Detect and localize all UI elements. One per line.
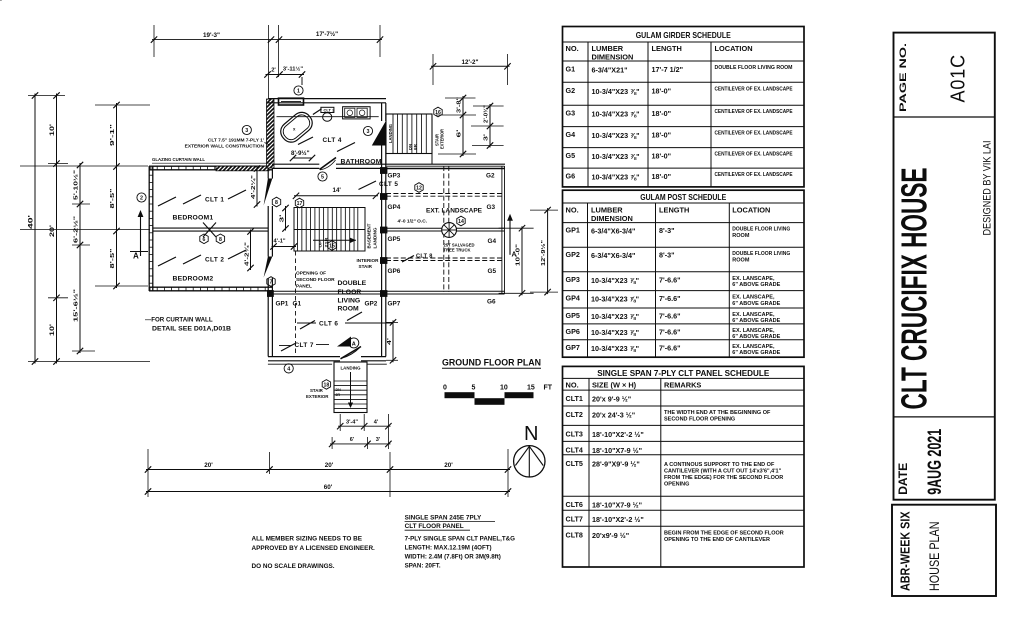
plan: bathtub — [277, 108, 316, 146]
svg-text:7-PLY SINGLE SPAN CLT PANEL,T&: 7-PLY SINGLE SPAN CLT PANEL,T&G — [405, 536, 516, 543]
svg-text:G3: G3 — [487, 204, 496, 211]
plan: CLT 7 span label — [279, 342, 329, 351]
svg-text:6-3/4"X6-3/4": 6-3/4"X6-3/4" — [591, 227, 635, 236]
svg-text:10-3/4"X23 ⅞": 10-3/4"X23 ⅞" — [592, 87, 640, 96]
svg-text:STAIR: STAIR — [359, 264, 373, 269]
svg-text:GP2: GP2 — [566, 250, 580, 259]
plan: landscape center dashed posts line — [444, 166, 449, 292]
plan: label CLT 3 at toilet — [313, 108, 335, 115]
plan: circled marker 1 — [294, 77, 303, 95]
svg-text:19'-3": 19'-3" — [203, 32, 220, 39]
svg-text:CENTILEVER OF EX. LANDSCAPE: CENTILEVER OF EX. LANDSCAPE — [715, 86, 793, 92]
dim extension lines (west) — [20, 96, 150, 362]
svg-text:EX. LANSCAPE,: EX. LANSCAPE, — [732, 312, 775, 318]
svg-text:DESIGNED BY VIK LAI: DESIGNED BY VIK LAI — [982, 141, 994, 236]
svg-text:BEGIN FROM THE EDGE OF SECOND: BEGIN FROM THE EDGE OF SECOND FLOOR — [664, 530, 784, 536]
svg-text:LANDING: LANDING — [373, 227, 378, 249]
svg-text:EXTERIOR WALL CONSTRUCTION: EXTERIOR WALL CONSTRUCTION — [185, 144, 265, 150]
svg-text:CLT2: CLT2 — [566, 410, 583, 419]
plan: girder G2 dashed line — [386, 194, 505, 197]
svg-text:G2: G2 — [486, 173, 495, 180]
dim chain: 12-9.5 (east) — [530, 207, 558, 295]
svg-text:18'-10"X7-9 ½": 18'-10"X7-9 ½" — [592, 501, 642, 510]
svg-text:10-3/4"X23 ⅞": 10-3/4"X23 ⅞" — [592, 173, 640, 182]
svg-text:4'-2¼": 4'-2¼" — [250, 174, 257, 199]
svg-text:CLT4: CLT4 — [566, 445, 583, 454]
plan: stair exterior (south) — [334, 362, 367, 413]
svg-text:18: 18 — [324, 382, 330, 388]
svg-text:1: 1 — [297, 89, 300, 95]
svg-text:N: N — [524, 423, 538, 445]
svg-text:G4: G4 — [566, 130, 576, 139]
svg-text:LIVING: LIVING — [338, 298, 361, 305]
svg-text:NO.: NO. — [566, 44, 579, 53]
svg-text:LENGTH: LENGTH — [659, 206, 689, 215]
svg-text:FT: FT — [544, 385, 553, 392]
svg-text:FLOOR: FLOOR — [338, 289, 362, 296]
plan: hex marker 12 — [415, 183, 423, 193]
svg-text:8'-5": 8'-5" — [110, 188, 116, 209]
svg-text:OPENING TO THE END OF CANTILEV: OPENING TO THE END OF CANTILEVER — [664, 537, 770, 543]
svg-text:20': 20' — [444, 462, 453, 469]
svg-text:10': 10' — [49, 323, 56, 336]
svg-text:PANEL: PANEL — [296, 284, 312, 290]
svg-text:THE WIDTH END AT THE BEGINNING: THE WIDTH END AT THE BEGINNING OF — [664, 410, 771, 416]
svg-text:NO.: NO. — [566, 380, 579, 389]
svg-text:LANDING: LANDING — [341, 366, 361, 371]
svg-text:18'-0": 18'-0" — [652, 172, 672, 181]
plan: circled marker 5 (bath door south) — [318, 172, 327, 181]
svg-text:3': 3' — [484, 134, 490, 141]
svg-text:CLT 1: CLT 1 — [205, 197, 224, 204]
plan: stair exterior labels (north) — [435, 128, 445, 149]
plan: interior stair treads — [294, 208, 365, 252]
svg-text:GROUND FLOOR PLAN: GROUND FLOOR PLAN — [442, 358, 541, 369]
dim chain: 3-8 / 6 (stair east) — [436, 95, 476, 157]
plan: wall break X symbol on divider — [203, 223, 216, 238]
svg-text:20'x 24'-3 ½": 20'x 24'-3 ½" — [592, 411, 635, 420]
svg-text:DOUBLE FLOOR LIVING: DOUBLE FLOOR LIVING — [732, 251, 790, 257]
svg-text:BEDROOM2: BEDROOM2 — [173, 276, 214, 283]
svg-text:G2: G2 — [566, 86, 576, 95]
svg-text:LOCATION: LOCATION — [715, 44, 753, 53]
plan: bathroom door symbol 5 (south wall opening) — [320, 158, 337, 170]
svg-text:APPROVED BY A LICENSED ENGINEE: APPROVED BY A LICENSED ENGINEER. — [252, 545, 376, 552]
svg-text:8'-3": 8'-3" — [659, 226, 675, 235]
svg-text:6" ABOVE GRADE: 6" ABOVE GRADE — [732, 282, 780, 288]
plan: dim 8-9.5 in bathroom — [290, 150, 315, 161]
svg-text:BATHROOM: BATHROOM — [341, 159, 382, 166]
girder G1 line across living room — [273, 291, 384, 294]
plan: dim 4'-1" — [270, 239, 297, 250]
svg-text:A: A — [352, 341, 356, 347]
svg-text:SINGLE SPAN 7-PLY CLT PANEL SC: SINGLE SPAN 7-PLY CLT PANEL SCHEDULE — [597, 368, 769, 378]
svg-text:SECOND FLOOR: SECOND FLOOR — [296, 277, 335, 283]
svg-text:CLT 5: CLT 5 — [379, 181, 398, 188]
svg-text:CLT 6: CLT 6 — [319, 320, 338, 327]
svg-text:EXT. LANDSCAPE: EXT. LANDSCAPE — [426, 208, 482, 215]
svg-text:4'-0 1/2" O.C.: 4'-0 1/2" O.C. — [398, 219, 428, 225]
plan: stair up arrow and UP 21R — [313, 237, 356, 248]
dim witness lines (stair south) — [332, 414, 388, 449]
title block: DATE cell — [894, 417, 995, 495]
svg-text:8R: 8R — [336, 393, 341, 397]
plan: dim 3ft at stair left — [280, 205, 289, 232]
dim chain: 2ft / 3-11.5 — [264, 66, 305, 86]
title block: page number A01C — [947, 54, 970, 103]
svg-text:8: 8 — [275, 200, 278, 206]
svg-text:7'-6.6": 7'-6.6" — [659, 343, 681, 352]
svg-text:GP7: GP7 — [566, 343, 580, 352]
svg-text:A: A — [133, 252, 139, 261]
plan: bedroom divider interior wall — [153, 228, 268, 231]
svg-text:3'-8": 3'-8" — [457, 96, 463, 113]
plan: south door arc at living room exit — [341, 347, 362, 359]
svg-text:WIDTH: 2.4M (7.8Ft) OR 3M(9.8f: WIDTH: 2.4M (7.8Ft) OR 3M(9.8ft) — [405, 554, 501, 561]
dim chain: bottom 60 — [145, 484, 511, 495]
plan: room label BEDROOM2 — [173, 276, 214, 283]
plan: CLT 5 span label — [359, 181, 399, 190]
svg-text:6: 6 — [203, 237, 206, 243]
svg-text:10-3/4"X23 ⅞": 10-3/4"X23 ⅞" — [591, 312, 639, 321]
plan: bathroom hatched west wall — [267, 99, 275, 168]
svg-text:6-3/4"X21": 6-3/4"X21" — [592, 66, 628, 75]
svg-text:CLT 7: CLT 7 — [295, 342, 314, 349]
svg-text:14: 14 — [458, 219, 464, 225]
plan: girder G5 dashed line (CLT 8) — [386, 258, 505, 261]
svg-text:CENTILEVER OF EX. LANDSCAPE: CENTILEVER OF EX. LANDSCAPE — [715, 152, 793, 158]
plan: room label BATHROOM — [341, 159, 382, 166]
svg-text:CLT 8: CLT 8 — [416, 253, 433, 259]
dim chain: bottom 20/20/20 — [145, 462, 511, 473]
dim chain: stair south 3-4 / 4 — [337, 420, 392, 430]
svg-text:G4: G4 — [488, 238, 497, 245]
svg-text:10-3/4"X23 ⅞": 10-3/4"X23 ⅞" — [591, 344, 639, 353]
svg-text:20': 20' — [49, 224, 56, 237]
svg-text:DN: DN — [336, 388, 342, 392]
svg-text:DIMENSION: DIMENSION — [592, 52, 634, 61]
svg-text:6': 6' — [457, 130, 463, 138]
svg-text:TREE TRUCK: TREE TRUCK — [444, 248, 471, 253]
svg-text:DO NO SCALE DRAWINGS.: DO NO SCALE DRAWINGS. — [252, 563, 335, 570]
svg-text:BEDROOM1: BEDROOM1 — [173, 215, 214, 222]
svg-text:ROOM: ROOM — [338, 306, 359, 313]
plan: note glazing curtain wall — [152, 157, 270, 163]
svg-text:10-3/4"X23 ⅞": 10-3/4"X23 ⅞" — [592, 152, 640, 161]
plan: center column west wall — [268, 166, 272, 357]
svg-text:GP1: GP1 — [566, 226, 580, 235]
svg-text:14': 14' — [333, 187, 342, 194]
svg-text:10-3/4"X23 ⅞": 10-3/4"X23 ⅞" — [591, 295, 639, 304]
svg-text:EX. LANSCAPE,: EX. LANSCAPE, — [732, 328, 775, 334]
plan: hex markers 6 and 8 at divider — [200, 234, 225, 244]
svg-text:LENGTH: MAX.12.19M (4OFT): LENGTH: MAX.12.19M (4OFT) — [405, 545, 492, 552]
svg-text:8R: 8R — [414, 143, 418, 150]
svg-text:GULAM POST SCHEDULE: GULAM POST SCHEDULE — [640, 192, 726, 202]
svg-text:20'x 9'-9 ½": 20'x 9'-9 ½" — [592, 395, 631, 404]
svg-text:REMARKS: REMARKS — [664, 380, 701, 389]
plan: room label EXT. LANDSCAPE — [426, 208, 482, 215]
svg-text:G3: G3 — [566, 109, 576, 118]
dim chain: stair south 6 / 3 — [329, 437, 392, 447]
svg-text:CLT 7.5" 191MM 7-PLY 1': CLT 7.5" 191MM 7-PLY 1' — [208, 138, 264, 144]
svg-text:60': 60' — [324, 484, 333, 491]
svg-text:10': 10' — [49, 123, 56, 136]
svg-text:GULAM GIRDER SCHEDULE: GULAM GIRDER SCHEDULE — [636, 30, 731, 40]
plan: girder/post tags row (G/GP) — [276, 173, 497, 308]
svg-text:7'-6.6": 7'-6.6" — [659, 294, 681, 303]
svg-text:6" ABOVE GRADE: 6" ABOVE GRADE — [732, 350, 780, 356]
dim chain: 5-10.5/6-2.5/15-6.5 (west) — [73, 162, 84, 354]
dim chain: 4ft (south-east of block) — [386, 319, 398, 363]
svg-text:12'-9½": 12'-9½" — [540, 240, 547, 266]
svg-text:LENGTH: LENGTH — [652, 44, 682, 53]
svg-text:2'-0¾": 2'-0¾" — [483, 104, 490, 123]
svg-text:GP6: GP6 — [388, 268, 401, 275]
svg-text:18'-10"X7-9 ½": 18'-10"X7-9 ½" — [592, 446, 642, 455]
plan: dim 4-2.25 lower — [244, 228, 254, 271]
svg-text:6': 6' — [350, 437, 355, 443]
svg-text:DOUBLE: DOUBLE — [338, 280, 367, 287]
plan: section arrow A (west) — [130, 210, 148, 261]
svg-text:0: 0 — [443, 385, 447, 392]
svg-text:CLT1: CLT1 — [566, 394, 583, 403]
svg-text:EXTERIOR: EXTERIOR — [306, 394, 329, 399]
svg-text:UP: UP — [319, 240, 323, 248]
plan: salvaged tree truck symbol — [442, 223, 457, 238]
svg-text:GP2: GP2 — [365, 301, 378, 308]
svg-text:20'x9'-9 ½": 20'x9'-9 ½" — [592, 531, 629, 540]
plan: circled marker 2 — [137, 193, 146, 202]
svg-text:7'-6.6": 7'-6.6" — [659, 275, 681, 284]
svg-text:15'-6½": 15'-6½" — [73, 288, 80, 322]
plan: hex marker 16 — [434, 107, 442, 117]
svg-text:SINGLE SPAN 245E 7PLY: SINGLE SPAN 245E 7PLY — [405, 515, 482, 522]
svg-text:5: 5 — [321, 175, 324, 181]
svg-text:10-3/4"X23 ⅞": 10-3/4"X23 ⅞" — [591, 276, 639, 285]
svg-text:18'-10"X2'-2 ½": 18'-10"X2'-2 ½" — [592, 515, 644, 524]
plan: dim 14 ft — [293, 187, 379, 199]
svg-text:5'-10½": 5'-10½" — [73, 169, 80, 200]
dim chain: 10/20/10 (west) — [49, 92, 60, 364]
svg-text:GLAZING CURTAIN WALL: GLAZING CURTAIN WALL — [152, 157, 205, 163]
svg-text:DN: DN — [409, 144, 413, 150]
svg-text:6'-2½": 6'-2½" — [73, 215, 80, 243]
svg-text:3'-11½": 3'-11½" — [283, 66, 303, 73]
svg-text:3'-4": 3'-4" — [346, 420, 358, 426]
plan: stair exterior labels (south) — [306, 380, 331, 399]
svg-text:8'-5": 8'-5" — [110, 248, 116, 269]
plan: CLT 6 span label — [297, 312, 393, 329]
dim chain: 10-0 (east) — [499, 225, 534, 297]
svg-text:EX. LANSCAPE,: EX. LANSCAPE, — [732, 295, 775, 301]
plan: room label DOUBLE FLOOR LIVING ROOM — [338, 280, 367, 313]
svg-text:4'-1": 4'-1" — [274, 239, 286, 245]
note: all member sizing — [252, 536, 376, 571]
plan: hex marker 7 (bedroom2 door) — [267, 277, 275, 287]
svg-text:—FOR CURTAIN WALL: —FOR CURTAIN WALL — [145, 317, 213, 324]
dim chain: overall 40 ft (west) — [28, 92, 39, 364]
svg-text:SECOND FLOOR OPENING: SECOND FLOOR OPENING — [664, 417, 735, 423]
svg-text:10'-0": 10'-0" — [516, 244, 522, 266]
svg-text:20': 20' — [325, 462, 334, 469]
svg-text:CLT3: CLT3 — [566, 429, 583, 438]
svg-text:GP1: GP1 — [276, 301, 289, 308]
plan: section arrow A (east) — [507, 214, 516, 259]
svg-text:10-3/4"X23 ⅞": 10-3/4"X23 ⅞" — [591, 328, 639, 337]
svg-text:6" ABOVE GRADE: 6" ABOVE GRADE — [732, 334, 780, 340]
svg-text:PAGE NO.: PAGE NO. — [898, 43, 908, 112]
svg-text:CLT CRUCIFIX HOUSE: CLT CRUCIFIX HOUSE — [894, 168, 935, 410]
svg-text:GP4: GP4 — [388, 204, 401, 211]
svg-text:CENTILEVER OF EX. LANDSCAPE: CENTILEVER OF EX. LANDSCAPE — [715, 172, 793, 178]
svg-text:4': 4' — [387, 338, 393, 345]
plan: bathroom/main shared wall (south of bathroom) — [272, 164, 505, 168]
plan: girder G4 line through tree truck — [386, 228, 505, 231]
plan: hex marker 17 — [295, 198, 303, 208]
svg-text:6-3/4"X6-3/4": 6-3/4"X6-3/4" — [591, 251, 635, 260]
svg-text:OPENING: OPENING — [664, 482, 689, 488]
svg-text:GP7: GP7 — [388, 301, 401, 308]
title block: designer credit — [982, 141, 994, 236]
svg-text:CLT7: CLT7 — [566, 514, 583, 523]
title block: PAGE NO. cell — [894, 43, 995, 117]
svg-text:4': 4' — [374, 420, 379, 426]
svg-text:17: 17 — [297, 201, 303, 207]
plan: basement landing label — [358, 208, 378, 251]
svg-text:10-3/4"X23 ⅞": 10-3/4"X23 ⅞" — [592, 110, 640, 119]
svg-text:CLT8: CLT8 — [566, 530, 583, 539]
svg-text:9'-1": 9'-1" — [110, 123, 116, 146]
heading: GROUND FLOOR PLAN — [442, 358, 541, 369]
plan: CLT 2 span label — [158, 250, 246, 266]
svg-text:6" ABOVE GRADE: 6" ABOVE GRADE — [732, 318, 780, 324]
plan: center column east wall with GP posts — [267, 103, 387, 357]
svg-text:G1: G1 — [566, 65, 576, 74]
table: GULAM POST SCHEDULE — [563, 190, 805, 357]
title block: sheet frame — [894, 33, 995, 500]
note: single span panel spec — [405, 515, 516, 570]
svg-text:3: 3 — [367, 129, 370, 135]
svg-text:9AUG 2021: 9AUG 2021 — [925, 429, 946, 495]
svg-text:CLT5: CLT5 — [566, 459, 583, 468]
svg-text:x: x — [293, 127, 296, 132]
svg-text:DIMENSION: DIMENSION — [591, 214, 633, 223]
svg-text:2': 2' — [271, 68, 276, 74]
svg-text:18'-0": 18'-0" — [652, 109, 672, 118]
svg-text:8'-9½": 8'-9½" — [291, 150, 310, 157]
svg-text:6" ABOVE GRADE: 6" ABOVE GRADE — [732, 301, 780, 307]
svg-text:GP4: GP4 — [566, 294, 580, 303]
svg-text:18'-0": 18'-0" — [652, 131, 672, 140]
svg-text:CENTILEVER OF EX. LANDSCAPE: CENTILEVER OF EX. LANDSCAPE — [715, 109, 793, 115]
plan: note 4-0.5 O.C. — [398, 219, 428, 225]
svg-text:ALL MEMBER SIZING NEEDS TO BE: ALL MEMBER SIZING NEEDS TO BE — [252, 536, 363, 543]
svg-text:3: 3 — [245, 128, 248, 134]
svg-text:4: 4 — [287, 366, 290, 372]
svg-text:10: 10 — [500, 385, 508, 392]
svg-text:G1: G1 — [293, 301, 302, 308]
svg-text:CLT6: CLT6 — [566, 500, 583, 509]
svg-text:EXTERIOR: EXTERIOR — [440, 128, 445, 149]
svg-text:OPENING OF: OPENING OF — [296, 271, 326, 277]
plan: circled marker 3 (wall note) — [242, 125, 251, 134]
svg-text:CENTILEVER OF EX. LANDSCAPE: CENTILEVER OF EX. LANDSCAPE — [715, 131, 793, 137]
plan: circled marker 3 (bath door) — [363, 126, 372, 135]
dim chain: 2-0.75 / 3 (stair east outer) — [471, 103, 504, 149]
svg-text:INTERIOR: INTERIOR — [357, 258, 380, 263]
plan: hatched top wall segment (exterior wall construction) — [216, 166, 269, 171]
svg-text:ROOM: ROOM — [732, 257, 750, 263]
plan: section marker A (south) — [337, 337, 359, 348]
svg-text:SIZE (W × H): SIZE (W × H) — [592, 380, 637, 389]
plan: note CLT exterior wall construction — [185, 138, 270, 150]
plan: bathroom north wall with window — [268, 98, 386, 105]
north arrow — [514, 423, 545, 477]
svg-text:LOCATION: LOCATION — [732, 206, 770, 215]
svg-text:CLT 2: CLT 2 — [205, 257, 224, 264]
svg-text:ABR-WEEK SIX: ABR-WEEK SIX — [897, 511, 912, 591]
plan: bedroom2 door wedge — [264, 257, 273, 278]
svg-text:7: 7 — [270, 280, 273, 286]
svg-text:SPAN: 20FT.: SPAN: 20FT. — [405, 563, 441, 570]
svg-text:7'-6.6": 7'-6.6" — [659, 312, 681, 321]
svg-text:5: 5 — [472, 385, 476, 392]
plan: note 25T salvaged tree truck — [444, 243, 475, 253]
plan: hex marker 8 (bedroom1 door) — [272, 197, 280, 207]
svg-text:NO.: NO. — [566, 206, 579, 215]
svg-text:ROOM: ROOM — [732, 233, 750, 239]
plan: center block south wall — [268, 357, 386, 361]
svg-text:7'-6.6": 7'-6.6" — [659, 327, 681, 336]
svg-text:EX. LANSCAPE,: EX. LANSCAPE, — [732, 344, 775, 350]
svg-text:17'-7½": 17'-7½" — [316, 30, 338, 38]
plan: hex marker 15 — [328, 241, 336, 251]
plan: left block (bedrooms) exterior curtain walls — [0, 0, 272, 291]
table: SINGLE SPAN 7-PLY CLT PANEL SCHEDULE — [563, 366, 805, 567]
title block: sheet info cell ABR-WEEK SIX / HOUSE PLAN — [892, 505, 996, 596]
svg-text:BASEMENT: BASEMENT — [367, 223, 372, 248]
svg-text:LANDING: LANDING — [388, 124, 393, 143]
plan: note interior stair — [357, 258, 380, 269]
svg-text:DETAIL SEE D01A,D01B: DETAIL SEE D01A,D01B — [152, 326, 232, 333]
svg-text:G6: G6 — [566, 172, 576, 181]
svg-text:GP5: GP5 — [566, 311, 580, 320]
svg-text:CLT FLOOR PANEL: CLT FLOOR PANEL — [405, 523, 464, 530]
title block: project name CLT CRUCIFIX HOUSE — [894, 168, 935, 410]
svg-text:GP3: GP3 — [388, 173, 401, 180]
svg-text:G5: G5 — [488, 268, 497, 275]
svg-text:GP6: GP6 — [566, 327, 580, 336]
svg-text:28'-9"X9'-9 ½": 28'-9"X9'-9 ½" — [592, 459, 640, 468]
svg-text:12: 12 — [416, 186, 422, 192]
svg-text:8'-3": 8'-3" — [659, 251, 675, 260]
dim witness lines (bottom) — [148, 449, 508, 497]
svg-text:FROM THE EDGE) FOR THE SECOND: FROM THE EDGE) FOR THE SECOND FLOOR — [664, 475, 783, 481]
svg-text:18'-0": 18'-0" — [652, 152, 672, 161]
plan: right block (ext. landscape) outline — [386, 166, 505, 294]
dim chain: top 19-3 and 17-7.5 — [151, 25, 383, 98]
plan: note opening of second floor panel — [296, 271, 335, 290]
svg-text:18'-10"X2'-2 ½": 18'-10"X2'-2 ½" — [592, 430, 644, 439]
svg-text:GP3: GP3 — [566, 275, 580, 284]
svg-text:G6: G6 — [487, 299, 496, 306]
svg-text:GP5: GP5 — [388, 236, 401, 243]
dim chain: 12-2 (north-east) — [430, 54, 511, 85]
svg-text:DOUBLE FLOOR LIVING ROOM: DOUBLE FLOOR LIVING ROOM — [715, 65, 793, 71]
plan: bathroom vanity counter line — [277, 116, 379, 118]
dim chain: 9-1/8-5/8-5 (west) — [110, 102, 120, 289]
